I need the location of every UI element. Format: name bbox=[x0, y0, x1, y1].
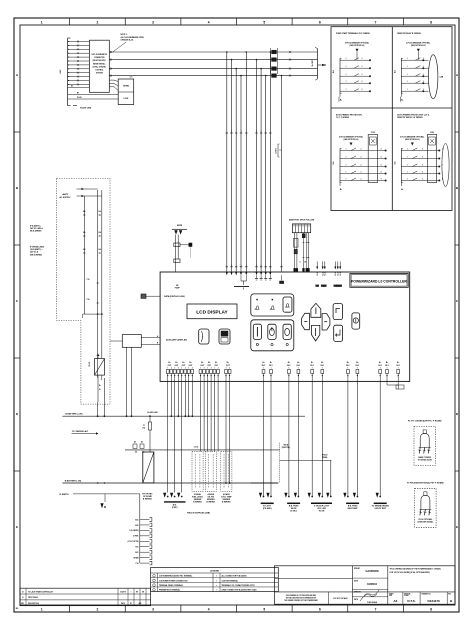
svg-text:TO DR: TO DR bbox=[319, 511, 325, 513]
svg-text:1: 1 bbox=[226, 131, 227, 133]
svg-text:AMETHYST SPICE FOLLOW: AMETHYST SPICE FOLLOW bbox=[289, 219, 315, 222]
svg-text:11: 11 bbox=[300, 261, 302, 263]
svg-text:C5 C6: C5 C6 bbox=[194, 447, 199, 449]
svg-text:SU-DF: SU-DF bbox=[89, 362, 91, 367]
svg-text:F1: F1 bbox=[143, 425, 145, 427]
svg-text:(SEE NOTE B9 #2): (SEE NOTE B9 #2) bbox=[350, 45, 365, 47]
svg-text:DESCRIPTION: DESCRIPTION bbox=[28, 603, 40, 605]
svg-text:PC TTY CONVER ALPB PVC 'P' BOA: PC TTY CONVER ALPB PVC 'P' BOARD bbox=[408, 419, 442, 422]
svg-text:3: 3 bbox=[152, 20, 154, 24]
svg-text:(PMC): (PMC) bbox=[172, 507, 178, 509]
svg-text:FIRST ISSUE: FIRST ISSUE bbox=[28, 597, 38, 599]
svg-text:TERMINALS TO CONNECTORIZED OPT: TERMINALS TO CONNECTORIZED OPTN bbox=[222, 584, 256, 587]
svg-text:PREMIER BOX TERMINAL: PREMIER BOX TERMINAL bbox=[159, 589, 180, 592]
svg-text:PR: PR bbox=[305, 261, 307, 263]
svg-text:DWN BY: DWN BY bbox=[354, 568, 360, 570]
svg-text:+BATT: +BATT bbox=[62, 193, 69, 196]
svg-text:PUMP START TERMINALS 'B 9' WIR: PUMP START TERMINALS 'B 9' WIRING bbox=[336, 32, 370, 35]
svg-text:LCD DISPLAY: LCD DISPLAY bbox=[196, 309, 228, 315]
svg-text:DO NOT SCALE: DO NOT SCALE bbox=[333, 597, 348, 600]
svg-text:B WIRING: B WIRING bbox=[143, 499, 152, 501]
svg-text:B21: B21 bbox=[135, 552, 138, 554]
svg-text:A3: A3 bbox=[393, 599, 397, 603]
svg-text:GUN 'B' RMT: GUN 'B' RMT bbox=[374, 508, 386, 510]
svg-text:1: 1 bbox=[246, 265, 247, 267]
svg-text:B+: B+ bbox=[340, 189, 342, 191]
svg-text:4-WAY CONNECTOR IN (DASH) TEXT: 4-WAY CONNECTOR IN (DASH) TEXT LEAN bbox=[222, 589, 258, 592]
svg-text:5: 5 bbox=[263, 20, 265, 24]
svg-text:B- EARTH: B- EARTH bbox=[59, 493, 69, 496]
svg-text:S (LONNIE): S (LONNIE) bbox=[129, 530, 139, 532]
svg-text:2: 2 bbox=[97, 20, 99, 24]
svg-text:6: 6 bbox=[319, 608, 321, 612]
svg-text:1: 1 bbox=[41, 20, 43, 24]
svg-text:B+1: B+1 bbox=[338, 272, 340, 275]
svg-text:+12V: +12V bbox=[60, 69, 62, 74]
svg-text:REV: REV bbox=[448, 593, 451, 595]
svg-text:1: 1 bbox=[246, 131, 247, 133]
svg-text:1: 1 bbox=[261, 265, 262, 267]
svg-text:B+ DIST: B+ DIST bbox=[312, 59, 314, 66]
svg-text:HORN: HORN bbox=[123, 86, 129, 88]
svg-text:LEGEND: LEGEND bbox=[210, 571, 220, 573]
svg-text:(DIS)OVER SIGNAL: (DIS)OVER SIGNAL bbox=[418, 520, 434, 523]
svg-text:[P-MC]: [P-MC] bbox=[291, 511, 297, 513]
svg-text:<: < bbox=[216, 575, 217, 578]
svg-text:F10: F10 bbox=[87, 299, 90, 301]
svg-text:B+1: B+1 bbox=[340, 272, 342, 275]
svg-text:(DISP PNL): (DISP PNL) bbox=[282, 447, 291, 449]
svg-text:2: 2 bbox=[97, 608, 99, 612]
svg-text:4: 4 bbox=[208, 608, 210, 612]
svg-text:AC SUPPLY: AC SUPPLY bbox=[59, 196, 71, 199]
svg-text:7: 7 bbox=[375, 20, 377, 24]
svg-text:B BATTERY (-VE): B BATTERY (-VE) bbox=[65, 479, 82, 482]
svg-text:PWLD B SUPPLIES [JSB]: PWLD B SUPPLIES [JSB] bbox=[187, 513, 210, 515]
svg-text:5: 5 bbox=[263, 608, 265, 612]
svg-text:DATA (DISPLAY LINK): DATA (DISPLAY LINK) bbox=[164, 295, 185, 298]
svg-text:CUSTOM TERMINAL: CUSTOM TERMINAL bbox=[222, 579, 238, 582]
svg-text:B WIRING: B WIRING bbox=[193, 501, 202, 503]
svg-text:(CTRL) & PANEL: (CTRL) & PANEL bbox=[93, 65, 106, 68]
svg-text:DIR B WIRING: DIR B WIRING bbox=[30, 254, 43, 256]
svg-text:TO SIGNAL ALPB: TO SIGNAL ALPB bbox=[418, 458, 433, 461]
svg-text:1: 1 bbox=[226, 265, 227, 267]
svg-text:LOW: LOW bbox=[124, 98, 129, 100]
svg-text:DR: DR bbox=[142, 591, 144, 593]
svg-text:CONNECTED: CONNECTED bbox=[94, 57, 105, 59]
svg-text:HMI B-: HMI B- bbox=[283, 445, 289, 447]
svg-text:ON B (BATT) +: ON B (BATT) + bbox=[30, 248, 42, 251]
svg-text:8: 8 bbox=[430, 20, 432, 24]
svg-text:REMOTE RELAY B' WIRING: REMOTE RELAY B' WIRING bbox=[397, 32, 421, 35]
svg-text:7: 7 bbox=[375, 608, 377, 612]
svg-text:GASPARIN: GASPARIN bbox=[365, 570, 378, 573]
svg-text:E: E bbox=[456, 525, 458, 529]
svg-text:4: 4 bbox=[208, 20, 210, 24]
svg-text:3: 3 bbox=[152, 608, 154, 612]
svg-text:E: E bbox=[16, 525, 18, 529]
svg-text:FLASH LINK: FLASH LINK bbox=[80, 107, 92, 110]
svg-text:(SEE NOTE B9 #2): (SEE NOTE B9 #2) bbox=[411, 45, 426, 47]
svg-text:FOR 12V DC 400 (NORE) [IP 44,: FOR 12V DC 400 (NORE) [IP 44, OPTIONALIZ… bbox=[390, 571, 431, 574]
svg-text:NOT ALTERNATOR: NOT ALTERNATOR bbox=[92, 53, 108, 56]
svg-text:[PS AND]: [PS AND] bbox=[263, 507, 272, 510]
svg-text:SIZE: SIZE bbox=[389, 595, 392, 597]
svg-text:TERMINAL PANEL TERMINAL: TERMINAL PANEL TERMINAL bbox=[159, 584, 183, 587]
svg-text:B PNK: B PNK bbox=[133, 536, 139, 538]
svg-text:1: 1 bbox=[261, 131, 262, 133]
svg-text:BY: BY bbox=[130, 603, 132, 605]
svg-text:POWERWIZARD L0 CONTROLLER: POWERWIZARD L0 CONTROLLER bbox=[351, 280, 407, 284]
svg-text:B+1: B+1 bbox=[317, 272, 319, 275]
svg-text:F10: F10 bbox=[87, 279, 90, 281]
svg-text:B1: B1 bbox=[77, 92, 79, 94]
svg-text:SMTR: SMTR bbox=[177, 225, 183, 227]
svg-text:REV: REV bbox=[21, 603, 24, 605]
svg-text:A 4 PLUG BREAKER OPEN: A 4 PLUG BREAKER OPEN bbox=[121, 36, 145, 39]
svg-text:B11: B11 bbox=[135, 547, 138, 549]
svg-text:CUSTOMER POWER CONNECTION: CUSTOMER POWER CONNECTION bbox=[159, 580, 188, 582]
svg-text:ALL CONNECTOR PCB (DASH): ALL CONNECTOR PCB (DASH) bbox=[222, 575, 247, 578]
svg-text:6: 6 bbox=[319, 20, 321, 24]
svg-text:B+1: B+1 bbox=[325, 272, 327, 275]
svg-text:R/T: R/T bbox=[136, 591, 138, 593]
svg-text:LINK B: LINK B bbox=[276, 147, 278, 153]
svg-text:1: 1 bbox=[41, 608, 43, 612]
svg-text:C10: C10 bbox=[135, 563, 138, 565]
svg-text:19/06/04: 19/06/04 bbox=[367, 583, 377, 586]
svg-text:24V DC A: 24V DC A bbox=[30, 251, 39, 254]
svg-text:REMOTE 'DELTA' 3.8' WIRING: REMOTE 'DELTA' 3.8' WIRING bbox=[397, 116, 423, 119]
svg-text:TITLE: WIRING DIAGRAM OF THE P: TITLE: WIRING DIAGRAM OF THE POWERWIZARD… bbox=[390, 568, 442, 571]
svg-text:NAST BMP: NAST BMP bbox=[348, 507, 359, 510]
svg-text:1: 1 bbox=[270, 131, 271, 133]
svg-text:B32: B32 bbox=[135, 525, 138, 527]
svg-text:WHEN INSTALL: WHEN INSTALL bbox=[93, 62, 106, 65]
svg-text:B31: B31 bbox=[135, 519, 138, 521]
svg-text:(MUST BE SPEC: (MUST BE SPEC bbox=[93, 60, 107, 62]
svg-text:NOTE 1:: NOTE 1: bbox=[121, 34, 128, 36]
svg-text:'LLY' 3' WIRING: 'LLY' 3' WIRING bbox=[336, 117, 350, 119]
svg-text:B+: B+ bbox=[340, 100, 342, 102]
svg-text:IF A (BATT) +: IF A (BATT) + bbox=[30, 225, 41, 228]
svg-text:B+: B+ bbox=[401, 100, 403, 102]
svg-text:B+: B+ bbox=[99, 385, 101, 387]
svg-text:(COLF OPTN): (COLF OPTN) bbox=[128, 541, 139, 543]
svg-text:B+1: B+1 bbox=[335, 272, 337, 275]
svg-text:SYSTEM: SYSTEM bbox=[96, 73, 104, 75]
svg-text:<: < bbox=[216, 579, 217, 582]
svg-text:CHANGE B+#4: CHANGE B+#4 bbox=[121, 39, 134, 42]
svg-text:AUXILIARY (DISPLAY): AUXILIARY (DISPLAY) bbox=[166, 339, 187, 342]
svg-text:(SEE NOTE B9 #2): (SEE NOTE B9 #2) bbox=[344, 139, 359, 141]
svg-text:1: 1 bbox=[270, 265, 271, 267]
svg-text:B BATTERY (+VE): B BATTERY (+VE) bbox=[66, 413, 83, 416]
svg-text:B+1: B+1 bbox=[323, 272, 325, 275]
svg-text:N.T.S.: N.T.S. bbox=[407, 599, 415, 603]
svg-text:19/1/2004: 19/1/2004 bbox=[367, 601, 378, 604]
svg-text:<: < bbox=[216, 584, 217, 587]
svg-text:SHMB: SHMB bbox=[134, 557, 140, 559]
svg-text:CONTROL: CONTROL bbox=[95, 70, 103, 72]
svg-text:B WIRING: B WIRING bbox=[222, 501, 231, 503]
svg-text:PML B: PML B bbox=[323, 454, 329, 456]
svg-text:8: 8 bbox=[430, 608, 432, 612]
svg-text:<: < bbox=[216, 589, 217, 592]
svg-text:NK A WIRING: NK A WIRING bbox=[30, 230, 42, 233]
svg-text:TO CHARGING ALT: TO CHARGING ALT bbox=[72, 430, 89, 433]
svg-text:D434476: D434476 bbox=[428, 599, 441, 603]
svg-text:B WIRING: B WIRING bbox=[207, 501, 216, 503]
svg-text:B+: B+ bbox=[401, 189, 403, 191]
svg-text:(SEE NOTE B9 #2): (SEE NOTE B9 #2) bbox=[405, 139, 420, 141]
svg-text:CUSTOMER/PACKAGING PNL TERMINA: CUSTOMER/PACKAGING PNL TERMINAL bbox=[159, 575, 192, 578]
svg-text:B+24V LINK: B+24V LINK bbox=[147, 411, 158, 414]
svg-text:PUMP: PUMP bbox=[175, 288, 181, 290]
svg-text:SHEET: SHEET bbox=[389, 593, 394, 595]
svg-text:24V DC LIKE A: 24V DC LIKE A bbox=[30, 227, 43, 230]
svg-text:PC PW (DIS)OVER SIGNAL PNT 'P': PC PW (DIS)OVER SIGNAL PNT 'P' BOARD bbox=[407, 481, 444, 484]
